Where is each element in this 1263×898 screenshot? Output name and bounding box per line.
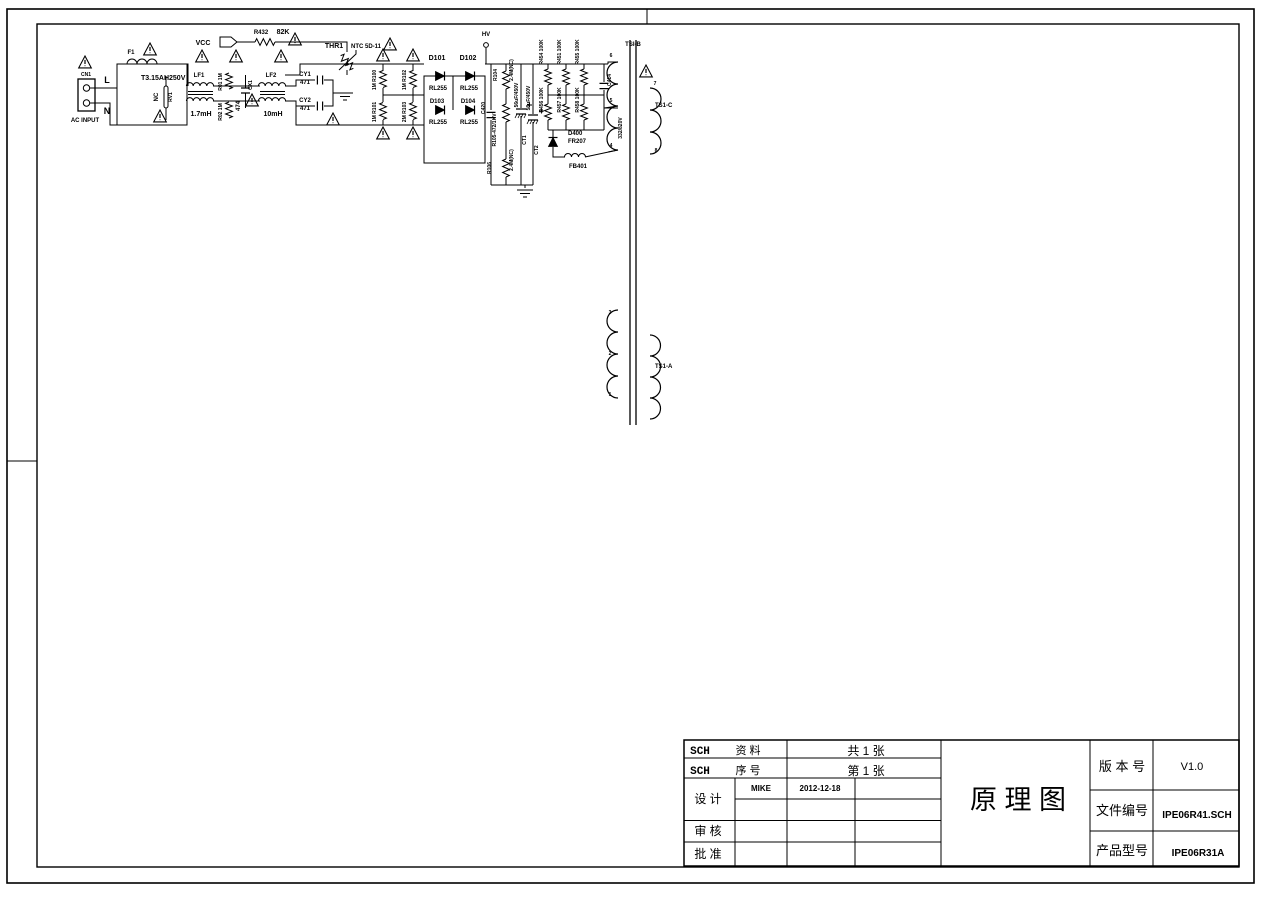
wire HV stem — [485, 48, 487, 64]
warning triangle over R102 — [407, 49, 420, 61]
svg-text:R456 100K: R456 100K — [539, 87, 545, 113]
svg-text:R458 100K: R458 100K — [575, 87, 581, 113]
wire C420 bot — [490, 120, 492, 185]
wire LF2 to CY2 — [285, 101, 315, 106]
svg-text:NTC 5D-11: NTC 5D-11 — [351, 44, 382, 50]
svg-text:共 1 张: 共 1 张 — [847, 744, 884, 758]
resistor R01 — [226, 73, 233, 89]
svg-text:FB401: FB401 — [569, 164, 588, 170]
resistor R102 — [410, 71, 417, 88]
wire mid to bridge — [383, 94, 424, 96]
warning triangle near gnd — [327, 113, 340, 125]
svg-text:文件编号: 文件编号 — [1096, 803, 1148, 818]
svg-text:T3.15AH250V: T3.15AH250V — [141, 75, 186, 82]
resistor R432 — [255, 39, 275, 46]
input filter box — [117, 64, 187, 125]
warning triangle under R101 — [377, 127, 390, 139]
wire D400 to FB401 — [553, 147, 565, 157]
wire LF1 to R01 bot — [213, 100, 260, 102]
svg-text:版 本 号: 版 本 号 — [1099, 759, 1145, 774]
transformer TS1-B primary winding — [607, 62, 618, 150]
warning triangle right of THR1 — [384, 38, 397, 50]
connector CN1 — [78, 79, 95, 111]
svg-text:10mH: 10mH — [263, 111, 282, 118]
svg-text:CY1: CY1 — [299, 72, 311, 78]
svg-text:82K: 82K — [277, 29, 290, 36]
wire CY mid to gnd — [333, 92, 345, 94]
svg-text:HV: HV — [482, 32, 490, 38]
warning triangle under RV1 — [154, 110, 167, 122]
bridge rectifier box — [424, 76, 485, 163]
svg-text:L: L — [104, 75, 110, 85]
svg-text:332/820V: 332/820V — [618, 117, 624, 139]
wire snubber col — [505, 64, 507, 71]
LF1 core lines — [188, 92, 213, 95]
svg-text:474: 474 — [236, 100, 242, 111]
svg-text:RL255: RL255 — [429, 120, 448, 126]
svg-text:CY2: CY2 — [299, 98, 311, 104]
svg-text:N: N — [104, 106, 111, 116]
warning triangle over CX1 — [230, 50, 243, 62]
svg-text:D400: D400 — [568, 131, 583, 137]
svg-text:SCH: SCH — [690, 746, 710, 758]
svg-text:RL255: RL255 — [429, 86, 448, 92]
wire C414 top — [603, 64, 605, 82]
inductor LF1 top winding — [186, 83, 213, 86]
svg-text:RV1: RV1 — [168, 92, 174, 102]
wire C420 top — [490, 64, 492, 110]
svg-text:1M R101: 1M R101 — [372, 102, 378, 123]
wire bank0 mid — [547, 85, 549, 104]
svg-text:序 号: 序 号 — [735, 763, 760, 777]
svg-text:LF2: LF2 — [266, 73, 277, 79]
resistor R105 — [503, 104, 510, 122]
svg-text:资 料: 资 料 — [735, 743, 760, 757]
wire bank mid rail — [548, 94, 604, 96]
diode D103 — [436, 106, 445, 115]
resistor R103 — [410, 103, 417, 120]
wire bank2 top — [583, 64, 585, 69]
wire CT bot2 — [532, 122, 534, 185]
svg-text:TS1-A: TS1-A — [655, 364, 673, 370]
ferrite bead FB401 — [565, 154, 586, 158]
svg-text:审 核: 审 核 — [694, 823, 721, 838]
wire pin6 — [608, 62, 618, 64]
wire R102 stem — [412, 64, 414, 71]
svg-text:IPE06R41.SCH: IPE06R41.SCH — [1162, 810, 1231, 821]
transformer TS1-A winding — [607, 310, 618, 398]
capacitor CY2 — [317, 102, 322, 111]
wire bank bottom rail — [548, 129, 604, 131]
svg-text:D103: D103 — [430, 99, 445, 105]
svg-text:4: 4 — [610, 143, 613, 149]
resistor R455 100K — [563, 69, 570, 85]
wire R432 to THR1 — [275, 42, 347, 52]
svg-text:R106: R106 — [487, 162, 493, 174]
warning triangle near CN1 — [79, 56, 92, 68]
wire mid tap to xfmr — [604, 107, 618, 109]
inductor LF2 top winding — [258, 83, 285, 86]
capacitor CY1 — [317, 76, 322, 85]
fuse F1 — [127, 59, 157, 64]
wire D400 top — [552, 130, 554, 137]
svg-text:NC: NC — [154, 92, 160, 101]
svg-text:D101: D101 — [429, 55, 446, 62]
resistor R456 100K — [545, 104, 552, 120]
svg-text:R01 1M: R01 1M — [218, 73, 224, 91]
wire LF1 to R01 top — [213, 85, 260, 87]
capacitor C414 — [600, 83, 609, 88]
wire N to box bottom — [90, 103, 117, 125]
wire bank0 bot — [547, 120, 549, 130]
wire bottom AC rail — [296, 106, 424, 125]
wire FB401 to xfmr — [585, 150, 618, 157]
svg-text:RL255: RL255 — [460, 86, 479, 92]
resistor R02 — [226, 102, 233, 118]
wire bank0 top — [547, 64, 549, 69]
svg-text:原 理 图: 原 理 图 — [970, 785, 1066, 815]
wire L to fuse box — [90, 87, 117, 89]
resistor R101 — [380, 103, 387, 120]
wire CT col — [520, 64, 522, 108]
diode D101 — [436, 72, 445, 81]
svg-text:LF1: LF1 — [194, 73, 205, 79]
svg-text:2M R103: 2M R103 — [402, 102, 408, 123]
capacitor CT2 56uF/450V — [528, 115, 538, 120]
resistor R458 100K — [581, 104, 588, 120]
svg-text:3: 3 — [609, 310, 612, 316]
svg-text:1M R102: 1M R102 — [402, 70, 408, 91]
svg-text:2012-12-18: 2012-12-18 — [800, 784, 841, 793]
transformer core — [630, 40, 636, 425]
wire fuse to LF1 — [160, 64, 188, 86]
svg-text:5: 5 — [610, 98, 613, 104]
diode D102 — [466, 72, 475, 81]
resistor R454 100K — [545, 69, 552, 85]
wire snubber gnd rail — [491, 184, 533, 186]
wire bank2 mid — [583, 85, 585, 104]
inductor LF1 bottom winding — [186, 98, 213, 101]
svg-text:CX1: CX1 — [248, 80, 254, 90]
warning triangle near CX1 — [246, 94, 259, 106]
wire bridge mid — [452, 76, 454, 110]
wire pin4 — [608, 150, 618, 152]
svg-text:F1: F1 — [127, 50, 135, 56]
svg-text:产品型号: 产品型号 — [1096, 843, 1148, 858]
svg-text:IPE06R31A: IPE06R31A — [1172, 848, 1225, 859]
svg-text:7: 7 — [654, 81, 657, 87]
warning triangle near TS1-C — [640, 65, 653, 77]
wire snubber bottom rail — [424, 162, 485, 164]
wire N to LF1 — [186, 101, 188, 125]
top margin divider — [646, 9, 648, 24]
warning triangle under R103 — [407, 127, 420, 139]
svg-text:R451 100K: R451 100K — [557, 39, 563, 65]
warning triangle over R100 — [377, 49, 390, 61]
thermistor THR1 — [338, 53, 356, 71]
node HV — [484, 43, 489, 48]
svg-text:AC INPUT: AC INPUT — [71, 118, 100, 124]
wire bank1 bot — [565, 120, 567, 130]
resistor R106 — [503, 159, 510, 177]
svg-text:8: 8 — [655, 148, 658, 154]
svg-text:批 准: 批 准 — [694, 846, 721, 861]
svg-text:SCH: SCH — [690, 766, 710, 778]
svg-text:1.7mH: 1.7mH — [190, 111, 211, 118]
svg-text:1: 1 — [609, 392, 612, 398]
inductor LF2 bottom winding — [258, 98, 285, 101]
wire CY join — [324, 80, 333, 106]
svg-text:CT1: CT1 — [522, 135, 528, 145]
resistor R456 100K — [581, 69, 588, 85]
wire R103 bot — [412, 120, 414, 125]
wire top AC rail — [285, 64, 424, 75]
resistor R457 100K — [563, 104, 570, 120]
left fold mark — [7, 460, 37, 462]
wire THR1 to rail — [346, 70, 348, 75]
svg-text:2.4M(NC): 2.4M(NC) — [509, 59, 515, 81]
wire snubber col4 — [505, 177, 507, 185]
svg-text:R02 1M: R02 1M — [218, 103, 224, 121]
resistor R100 — [380, 71, 387, 88]
svg-text:2.4M(NC): 2.4M(NC) — [509, 149, 515, 171]
svg-text:设 计: 设 计 — [694, 792, 721, 806]
title block table — [684, 740, 1239, 866]
svg-text:TSI-B: TSI-B — [625, 42, 641, 48]
diode D400 FR207 — [549, 138, 558, 147]
wire R101 bot — [382, 120, 384, 125]
svg-text:R457 100K: R457 100K — [557, 87, 563, 113]
svg-text:D104: D104 — [461, 99, 476, 105]
wire C414 bot — [603, 90, 605, 130]
wire bank1 mid — [565, 85, 567, 104]
svg-text:56uF/450V: 56uF/450V — [514, 82, 520, 107]
capacitor CT1 56uF/450V — [516, 109, 526, 114]
wire CT col2 — [532, 64, 534, 114]
varistor RV1 — [164, 86, 168, 108]
warning triangle over LF1 — [196, 50, 209, 62]
CN1 pin N circle — [83, 100, 89, 106]
wire snubber col2 — [505, 89, 507, 104]
warning triangle over LF2 — [275, 50, 288, 62]
svg-text:MIKE: MIKE — [751, 784, 772, 793]
ground snubber — [517, 190, 533, 197]
svg-text:CN1: CN1 — [81, 72, 91, 78]
transformer TS1-C winding — [650, 88, 661, 154]
wire bank1 top — [565, 64, 567, 69]
svg-text:471: 471 — [300, 106, 311, 112]
svg-text:RL255: RL255 — [460, 120, 479, 126]
transformer TS1-A secondary winding — [650, 335, 661, 419]
svg-text:C420: C420 — [481, 102, 487, 114]
svg-text:CT2: CT2 — [534, 145, 540, 155]
svg-text:1M R100: 1M R100 — [372, 70, 378, 91]
wire mid AC — [382, 88, 384, 102]
svg-text:R454 100K: R454 100K — [539, 39, 545, 65]
svg-text:D102: D102 — [460, 55, 477, 62]
warning triangle after R432 — [289, 33, 302, 45]
wire pin5 — [604, 106, 618, 108]
LF2 core lines — [260, 92, 285, 95]
capacitor C420 — [487, 112, 496, 117]
svg-text:471: 471 — [300, 80, 311, 86]
wire snubber col3 — [505, 122, 507, 159]
wire top rail to xfmr — [485, 63, 608, 65]
resistor R104 — [503, 71, 510, 89]
svg-text:R455 100K: R455 100K — [575, 39, 581, 65]
svg-text:R432: R432 — [254, 30, 269, 36]
svg-text:第 1 张: 第 1 张 — [847, 764, 884, 778]
wire bank2 bot — [583, 120, 585, 130]
wire CT bot — [520, 116, 522, 185]
svg-text:6: 6 — [610, 53, 613, 59]
svg-text:THR1: THR1 — [325, 43, 343, 50]
wire gnd stem snubber — [524, 185, 526, 188]
junction top rail THR1 — [345, 62, 348, 65]
ground CY caps — [337, 93, 353, 100]
svg-text:2: 2 — [609, 351, 612, 357]
svg-text:VCC: VCC — [196, 40, 211, 47]
capacitor CX1 — [241, 88, 250, 93]
svg-text:56uF/450V: 56uF/450V — [526, 85, 532, 110]
svg-text:R104: R104 — [493, 69, 499, 81]
diode D104 — [466, 106, 475, 115]
svg-text:TS1-C: TS1-C — [655, 103, 673, 109]
wire R100 stem — [382, 64, 384, 71]
svg-text:FR207: FR207 — [568, 139, 587, 145]
svg-text:V1.0: V1.0 — [1181, 761, 1204, 773]
CN1 pin L circle — [83, 85, 89, 91]
warning triangle near F1 — [144, 43, 157, 55]
wire mid AC2 — [412, 88, 414, 102]
wire LF2 to CY1 — [285, 80, 315, 86]
wire VCC flag to R432 — [237, 41, 255, 43]
net flag VCC — [220, 37, 237, 47]
